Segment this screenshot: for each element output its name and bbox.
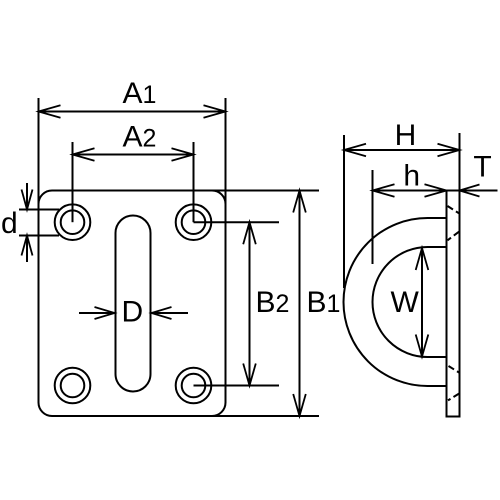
h arrow right [425, 184, 447, 197]
W arrow bottom [416, 335, 429, 357]
A2 dimension line [73, 154, 194, 156]
B2 arrow top [243, 222, 256, 244]
h extension line left [372, 170, 374, 264]
A1 extension line right [225, 98, 227, 206]
H arrow left [344, 144, 366, 157]
d arrow top [26, 183, 28, 210]
A2 extension line left [72, 142, 74, 222]
svg-text:H: H [395, 119, 417, 152]
W dimension line [421, 248, 423, 357]
svg-text:A1: A1 [123, 77, 157, 110]
hole top-left inner [61, 210, 85, 234]
svg-text:A2: A2 [123, 121, 157, 154]
hole bottom-left inner [61, 374, 85, 398]
countersink hidden line bottom upper [449, 366, 460, 373]
B1 arrow bottom [293, 394, 306, 416]
h dimension line [373, 190, 447, 192]
svg-text:B1: B1 [307, 286, 341, 319]
B1 dimension line [299, 191, 301, 417]
B2 arrow bottom [243, 364, 256, 386]
hole top-right outer [176, 204, 212, 240]
A2 arrow right [172, 148, 194, 161]
hole bottom-left outer [55, 368, 91, 404]
B2 extension line top [194, 221, 280, 223]
H extension line right [459, 133, 461, 191]
slot [116, 216, 151, 392]
D arrow left [79, 312, 115, 314]
hole top-right inner [182, 210, 206, 234]
B2 extension line bottom [194, 385, 280, 387]
svg-text:T: T [473, 151, 491, 184]
B1 extension line top [210, 190, 319, 192]
hole top-left outer [55, 204, 91, 240]
countersink hidden line top upper [448, 206, 460, 213]
A1 arrow left [39, 105, 61, 118]
countersink hidden line bottom lower [448, 394, 459, 401]
svg-text:D: D [122, 296, 144, 329]
B1 extension line bottom [210, 415, 319, 417]
d arrow bottom [26, 236, 28, 263]
ring inner arc [373, 247, 447, 357]
B1 arrow top [293, 191, 306, 213]
A2 extension line right [193, 142, 195, 222]
H extension line left [343, 135, 345, 288]
svg-text:B2: B2 [256, 286, 290, 319]
W arrow top [416, 248, 429, 270]
A1 dimension line [39, 111, 226, 113]
B2 dimension line [249, 222, 251, 385]
h arrow left [373, 184, 395, 197]
side plate bar [447, 191, 460, 417]
svg-text:d: d [1, 207, 18, 240]
d dimension line top [19, 209, 59, 211]
countersink hidden line top lower [448, 232, 460, 241]
hole bottom-right inner [182, 374, 206, 398]
d dimension line bottom [19, 235, 59, 237]
T arrow [460, 190, 498, 192]
H arrow right [438, 144, 460, 157]
A2 arrow left [73, 148, 95, 161]
plate outline [39, 191, 226, 417]
A1 extension line left [38, 98, 40, 206]
D arrow right [152, 312, 189, 314]
A1 arrow right [204, 105, 226, 118]
svg-text:h: h [403, 160, 420, 193]
hole bottom-right outer [176, 368, 212, 404]
H dimension line [344, 149, 460, 151]
ring outer arc [344, 218, 447, 386]
svg-text:W: W [391, 286, 420, 319]
